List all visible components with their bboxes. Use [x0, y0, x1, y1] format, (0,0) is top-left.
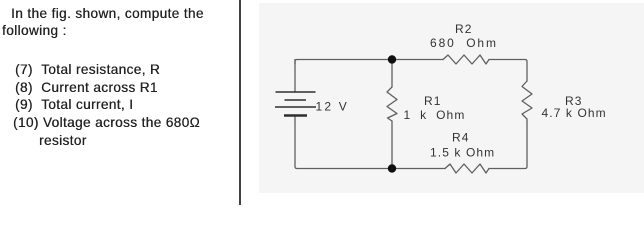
divider line — [239, 0, 241, 205]
wire right bottom segment — [489, 122, 527, 169]
svg-text:1.5 k Ohm: 1.5 k Ohm — [430, 146, 495, 160]
list item 9 — [15, 98, 133, 112]
wire middle branch lower — [391, 121, 393, 169]
battery V1 — [275, 92, 316, 116]
resistor R4 — [445, 164, 489, 173]
wire middle branch upper — [391, 60, 393, 88]
svg-text:R1: R1 — [424, 94, 442, 108]
circuit panel background — [259, 3, 644, 194]
list item 8 — [15, 81, 158, 95]
wire left to battery bottom — [294, 116, 296, 121]
wire bottom rail left segment — [295, 120, 445, 169]
resistor R3 — [522, 81, 532, 122]
resistor R1 — [387, 87, 397, 121]
list item 10 — [13, 116, 200, 130]
svg-text:1 k Ohm: 1 k Ohm — [404, 108, 466, 122]
svg-text:680 Ohm: 680 Ohm — [430, 36, 498, 50]
junction node bottom — [388, 164, 396, 172]
svg-text:4.7 k Ohm: 4.7 k Ohm — [542, 106, 607, 120]
resistor R2 — [443, 55, 489, 64]
problem statement line 1 — [11, 7, 204, 21]
svg-text:R2: R2 — [455, 22, 473, 36]
wire top rail left segment — [295, 60, 443, 65]
junction node top — [388, 55, 396, 63]
list item 7 — [15, 63, 160, 77]
svg-text:R4: R4 — [452, 131, 470, 145]
wire battery top to rail — [294, 60, 296, 93]
problem statement line 2 — [2, 24, 67, 38]
svg-text:12 V: 12 V — [316, 99, 350, 113]
wire top rail right segment — [489, 60, 527, 82]
list item 10 wrap — [39, 134, 87, 148]
